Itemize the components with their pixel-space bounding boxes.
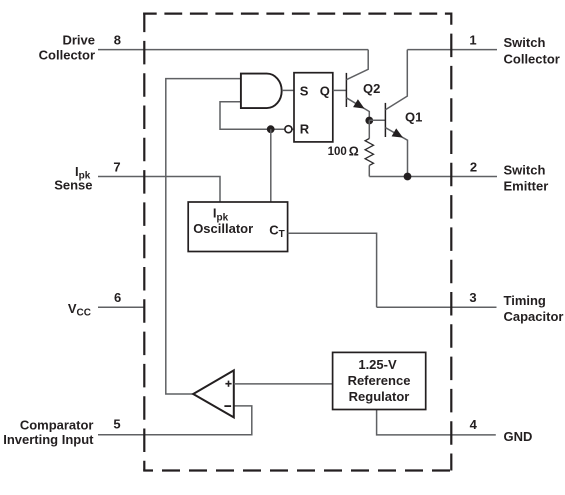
svg-text:Regulator: Regulator (349, 389, 410, 404)
svg-text:Emitter: Emitter (504, 179, 549, 194)
comparator (193, 370, 234, 417)
svg-text:R: R (300, 122, 310, 137)
pin 3 wire (CT node to Timing Capacitor) (377, 306, 497, 308)
pin 1 wire (Q1 collector to Switch Collector) (407, 49, 497, 51)
svg-text:4: 4 (470, 417, 478, 432)
IC package dashed boundary (143, 13, 452, 471)
svg-text:Q: Q (320, 84, 330, 99)
pin 7 wire (Ipk Sense to oscillator) (98, 177, 220, 203)
svg-text:Switch: Switch (504, 163, 546, 178)
svg-text:Comparator: Comparator (20, 418, 94, 433)
svg-text:Q1: Q1 (405, 110, 422, 125)
svg-text:GND: GND (504, 429, 533, 444)
svg-text:2: 2 (470, 160, 477, 175)
wire: reference regulator to comparator + input (234, 383, 333, 385)
R input inversion bubble (285, 126, 292, 133)
pin 3 label "Timing Capacitor" (504, 293, 564, 324)
svg-text:Reference: Reference (348, 373, 411, 388)
svg-text:Drive: Drive (62, 33, 95, 48)
svg-text:7: 7 (113, 160, 120, 175)
svg-text:Switch: Switch (504, 35, 546, 50)
wire: AND gate bottom input from R net (220, 102, 294, 129)
AND gate (241, 74, 282, 109)
pin 8 label "Drive Collector" (39, 33, 95, 63)
svg-text:Oscillator: Oscillator (193, 221, 253, 236)
pin 6 wire (VCC stub to boundary) (98, 306, 144, 308)
svg-text:Collector: Collector (504, 52, 560, 67)
svg-text:Timing: Timing (504, 293, 546, 308)
svg-text:6: 6 (114, 290, 121, 305)
svg-text:8: 8 (114, 32, 121, 47)
pin 8 wire (Drive Collector to Q2 collector) (98, 49, 368, 51)
wire: oscillator CT output to pin 3 (288, 233, 377, 307)
resistor 100 ohm (368, 120, 370, 138)
wire: latch Q output to Q2 base (333, 89, 347, 91)
node: Q2 emitter / Q1 base / resistor junction (365, 117, 373, 125)
SR latch (294, 73, 333, 142)
svg-text:Capacitor: Capacitor (504, 309, 564, 324)
wire: junction to oscillator top (270, 129, 272, 202)
svg-text:1: 1 (469, 32, 476, 47)
svg-text:S: S (300, 84, 309, 99)
svg-text:3: 3 (469, 290, 476, 305)
pin 1 label "Switch Collector" (504, 35, 560, 67)
transistor Q1 (385, 50, 407, 177)
pin 2 wire (emitter bus to Switch Emitter) (369, 176, 497, 178)
oscillator block (188, 202, 287, 252)
svg-text:Inverting Input: Inverting Input (3, 432, 94, 447)
svg-text:Ω: Ω (349, 144, 359, 158)
wire: comparator output riser to AND gate top input (166, 79, 241, 394)
svg-text:Sense: Sense (54, 178, 92, 193)
wire: AND gate output to latch S input (282, 89, 294, 91)
pin 2 label "Switch Emitter" (504, 163, 549, 194)
pin 5 label "Comparator Inverting Input" (3, 418, 94, 447)
svg-text:100: 100 (328, 146, 347, 158)
1.25-V reference regulator block (333, 352, 426, 409)
svg-text:Collector: Collector (39, 48, 95, 63)
svg-text:1.25-V: 1.25-V (358, 357, 397, 372)
pin 4 wire (reference regulator to GND) (377, 410, 496, 435)
transistor Q2 (346, 50, 369, 121)
wire: junction to Q1 base (369, 119, 385, 121)
node: Q1 emitter junction on pin 2 bus (404, 173, 412, 181)
pin 5 wire (Comparator Inverting Input to comparator -) (98, 406, 252, 435)
node: R input / oscillator junction (267, 125, 275, 133)
comparator - input mark (224, 405, 231, 407)
reference regulator label (348, 357, 411, 404)
svg-text:Q2: Q2 (363, 81, 380, 96)
svg-text:5: 5 (113, 416, 120, 431)
comparator + input mark (225, 381, 231, 387)
